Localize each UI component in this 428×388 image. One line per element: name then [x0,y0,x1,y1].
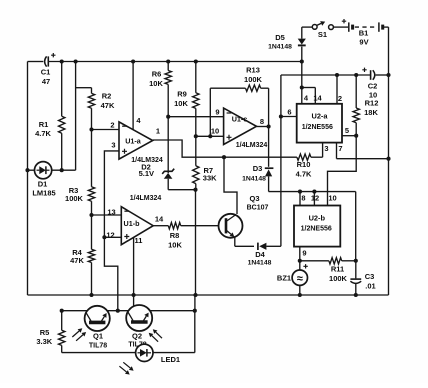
svg-text:47K: 47K [101,101,115,110]
svg-text:BZ1: BZ1 [277,274,291,283]
svg-text:Q3: Q3 [249,194,259,203]
wire right battery-negative rail [388,27,390,295]
wire U1-a output to R10 [153,140,297,157]
resistor R11 [300,258,356,283]
svg-text:1N4148: 1N4148 [268,44,292,51]
node D5/V+ rail junction [300,59,304,63]
svg-text:100K: 100K [329,274,348,283]
pin label 11 (U1-b V-) [135,236,143,245]
node U1-c output/R13/D3 junction [267,124,271,128]
pin label 13 (U1-b inverting) [107,208,115,217]
resistor R12 [353,75,378,136]
node pin7/right-rail junction [386,157,390,161]
svg-text:2: 2 [110,121,114,130]
pin label 10 (U2-b reset) [328,194,336,203]
capacitor C3 [350,261,375,295]
node pins 4/14 bracket junction [300,85,304,89]
svg-text:U2-a: U2-a [311,111,328,120]
capacitor C2 [362,68,388,100]
node C3/ground junction [354,293,358,297]
node R2/R3/pin2 junction [89,127,93,131]
svg-text:6: 6 [287,108,291,117]
node pin8 junction [298,190,302,194]
node D2/R7 ground-leg junction [193,188,197,192]
op-amp U1-b [121,195,161,245]
svg-text:12: 12 [106,231,114,240]
wire bottom ground rail [28,294,389,296]
wire V+ top rail (C1 to D5 node) [48,61,301,63]
battery B1 9V [342,19,389,47]
wire U2-a pin 7 to ground rail [337,143,389,159]
svg-text:C1: C1 [41,68,51,77]
diode D4 1N4148 [248,243,281,267]
svg-text:R12: R12 [365,99,379,108]
buzzer BZ1 [277,264,308,295]
timer U2-b 1/2NE556 [294,206,340,247]
switch S1 [302,21,348,39]
phototransistor Q1 TIL78 [85,306,110,350]
node pin3/pin12 junction [102,235,106,239]
LED LED1 [62,311,195,364]
svg-text:.01: .01 [365,282,375,291]
wire U1-c pin 9 input [168,116,223,118]
diode D3 1N4148 [242,164,273,192]
svg-text:R5: R5 [40,328,50,337]
svg-text:Q1: Q1 [93,332,103,341]
svg-text:1: 1 [156,127,160,136]
pin label 9 (U1-c inverting) [215,108,219,117]
pin label 3 (U2-a control) [324,144,328,153]
op-amp U1-c [224,108,268,149]
node pin4 riser/V+ rail junction [131,59,135,63]
wire U2-a timing node (pins 2,6 / R12 / C2) [281,74,370,76]
resistor R10 [296,143,323,179]
pin label 14 (U1-b output) [155,215,164,224]
wire R5/Q1/Q2 emitter-collector run [62,310,195,312]
diode D1 LM185 [28,162,76,198]
wire U2-b pin 12 riser [313,192,315,206]
pin label 4 (U2-a reset) [304,94,309,103]
pin label 3 (U1-a non-inverting) [111,141,115,150]
svg-text:9: 9 [215,108,219,117]
svg-text:LED1: LED1 [161,355,180,364]
wire R2 top tap [76,87,92,89]
svg-text:3: 3 [111,141,115,150]
svg-text:1/2NE556: 1/2NE556 [302,124,333,131]
wire U1-a pin3 / U1-b pin12 / Q1-Q2 node [104,151,118,311]
pin label 5 (U2-a output) [345,126,349,135]
diode D5 1N4148 [268,27,306,61]
svg-text:TIL78: TIL78 [89,343,107,350]
wire U2-a pin 2 riser [336,75,338,104]
wire D4 to U2-a trigger riser [280,75,282,246]
resistor R6 [149,62,171,117]
svg-text:10: 10 [211,127,219,136]
svg-text:10K: 10K [149,79,163,88]
resistor R4 [70,215,95,295]
node R12/pin5 junction [354,134,358,138]
wire U1-b pin 11 to ground [133,237,135,306]
svg-text:3.3K: 3.3K [36,337,52,346]
svg-text:100K: 100K [244,75,263,84]
svg-text:10: 10 [328,194,336,203]
node R6/D2/pin9 junction [166,115,170,119]
resistor R9 [174,62,199,137]
wire U1-c output [257,126,269,128]
svg-text:10K: 10K [168,241,182,250]
pin label 8 (U2-b trigger) [301,194,305,203]
wire U2-b pin 8 riser [299,192,301,206]
pin label 2 (U2-a threshold) [338,94,342,103]
pin label 2 (U1-a inverting) [110,121,114,130]
phototransistor Q2 TIL78 [126,305,152,349]
node C1/R1 junction [60,59,64,63]
pin label 9 (U2-b output) [302,249,306,258]
svg-text:1/2NE556: 1/2NE556 [301,225,332,232]
svg-text:U1-b: U1-b [124,219,141,228]
svg-text:C2: C2 [368,82,378,91]
node pin9/R11 junction [298,259,302,263]
node pin2-riser junction [335,73,339,77]
svg-text:1N4148: 1N4148 [248,260,272,267]
svg-text:D5: D5 [275,33,285,42]
svg-text:R8: R8 [170,231,180,240]
node R6/V+ rail junction [166,59,170,63]
svg-text:1/4LM324: 1/4LM324 [236,142,268,149]
pin label 10 (U1-c non-inverting) [211,127,219,136]
svg-text:D3: D3 [253,164,263,173]
pin label 6 (U2-a trigger) [287,108,291,117]
wire ground rail to Q2/LED return riser [194,295,196,311]
svg-text:33K: 33K [203,173,217,182]
svg-text:R11: R11 [331,265,344,274]
svg-text:R13: R13 [246,66,260,75]
op-amp U1-a [119,122,163,164]
svg-text:2: 2 [338,94,342,103]
wire U1-b pin 12 stub [104,236,121,238]
svg-text:5.1V: 5.1V [139,169,154,178]
resistor R13 [210,66,268,137]
wire U1-c pin 10 input [196,135,224,137]
pin label 12 (U1-b non-inverting) [106,231,114,240]
pin label 8 (U1-c output) [260,117,264,126]
svg-text:BC107: BC107 [247,205,269,212]
node R9/R7/pin10 junction [194,134,198,138]
svg-text:10K: 10K [174,99,188,108]
svg-text:B1: B1 [359,29,369,38]
light arrows into Q2 [149,329,162,342]
timer U2-a 1/2NE556 [297,104,342,143]
svg-text:R9: R9 [177,90,187,99]
pin label 4 (U1-a V+) [136,116,141,125]
node R1/D1 junction [60,168,64,172]
svg-text:11: 11 [135,236,143,245]
wire U2-b pin 9 output [299,247,301,270]
light arrows into Q1 [72,328,86,341]
node R4/ground junction [89,293,93,297]
light arrows from LED1 [119,362,133,374]
svg-text:18K: 18K [364,108,378,117]
svg-text:U1-a: U1-a [125,137,142,146]
node R9/V+ rail junction [194,59,198,63]
wire Q3 emitter to D4 [235,237,254,247]
svg-text:8: 8 [260,117,264,126]
svg-text:14: 14 [155,215,164,224]
svg-text:4.7K: 4.7K [35,129,51,138]
node Q2/ground-riser junction [193,309,197,313]
svg-text:R1: R1 [39,120,49,129]
svg-text:1/4LM324: 1/4LM324 [130,195,162,202]
svg-text:S1: S1 [318,30,327,39]
wire U1-a pin 4 riser to V+ rail [132,62,134,130]
node Q1/Q2 midpoint junction [116,309,120,313]
wire R13/U1-c-output to D3 [268,88,270,167]
svg-text:13: 13 [107,208,115,217]
pin label 1 (U1-a output) [156,127,160,136]
svg-text:C3: C3 [365,272,375,281]
resistor R1 [35,62,65,171]
node R7-leg/ground junction [193,293,197,297]
svg-text:14: 14 [313,94,322,103]
zener diode D2 5.1V [139,117,196,190]
svg-text:U1-c: U1-c [232,114,248,123]
svg-text:R6: R6 [152,70,162,79]
wire D1 riser to V+ rail [75,62,77,171]
wire R7/D2 leg to ground rail [195,190,197,295]
pin label 12 (U2-b threshold) [311,194,319,203]
svg-text:3: 3 [324,144,328,153]
svg-text:R2: R2 [102,92,112,101]
wire D5 to U2-a pins 4/14 [302,62,316,104]
node R13/pin10 junction [208,134,212,138]
resistor R5 [36,311,65,353]
node pin12 junction [312,190,316,194]
svg-text:Q2: Q2 [132,332,142,341]
node top-rail/D1-riser junction [74,59,78,63]
svg-text:4.7K: 4.7K [296,170,312,179]
svg-text:8: 8 [301,194,305,203]
svg-text:D1: D1 [38,180,48,189]
pin label 14 (U2-a V+) [313,94,322,103]
svg-text:47K: 47K [70,256,84,265]
node D1 left junction on ground rail [25,168,29,172]
node U1-a-output/Q3-collector junction [222,155,226,159]
svg-text:LM185: LM185 [32,189,55,198]
node BZ1/ground junction [298,293,302,297]
resistor R2 [88,88,115,130]
node R5-top/Q1 junction [60,309,64,313]
svg-text:9: 9 [302,249,306,258]
resistor R8 [153,223,218,250]
wire U2-a pin5 to U2-b pin10 (reset link) [328,136,357,206]
pin label 7 (U2-a ground) [338,144,342,153]
svg-text:≈: ≈ [297,273,303,285]
wire left ground rail (vertical) [27,62,29,296]
wire V+ top rail (left of C1) [28,61,44,63]
node pin11/ground junction [132,293,136,297]
svg-text:9V: 9V [359,38,368,47]
svg-text:7: 7 [338,144,342,153]
svg-text:47: 47 [42,77,50,86]
svg-text:1N4148: 1N4148 [242,176,266,183]
svg-text:12: 12 [311,194,319,203]
node R3/R4/pin13 junction [89,213,93,217]
svg-text:U2-b: U2-b [309,213,326,222]
svg-text:R10: R10 [297,160,311,169]
node R11/C3 junction [354,259,358,263]
resistor R3 [65,130,95,216]
wire U2-a pin 5 stub [342,135,356,137]
node R12 top junction [354,73,358,77]
node C2/right-rail junction [386,73,390,77]
node pin6 junction [279,114,283,118]
wire U1-b pin 13 input [92,214,122,216]
capacitor C1 [41,53,56,86]
wire U2-a pin 6 stub [281,116,297,118]
wire U2-b pins 8/12 threshold node [269,192,356,261]
transistor Q3 BC107 [219,157,269,238]
svg-text:D4: D4 [255,250,265,259]
wire U1-a pin 2 input [92,129,120,131]
svg-text:100K: 100K [65,194,84,203]
resistor R7 [193,136,218,189]
svg-text:5: 5 [345,126,349,135]
